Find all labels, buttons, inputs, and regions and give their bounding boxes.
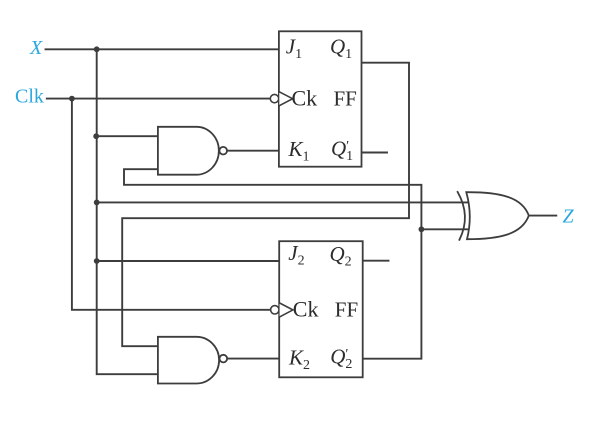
flip-flop FF1 clock bubble xyxy=(270,94,278,102)
wire Q2' feedback to NAND1 G1 lower input and XOR lower input xyxy=(124,169,421,359)
wire Q1' stub xyxy=(362,152,388,154)
flip-flop FF2 clock triangle xyxy=(280,303,293,317)
flip-flop FF1 box xyxy=(279,31,362,166)
wire NAND1 G1 output to K1 xyxy=(227,150,279,152)
flip-flop FF1 clock triangle xyxy=(279,92,292,106)
XOR gate G3 body xyxy=(466,192,529,239)
svg-text:FF: FF xyxy=(335,298,358,322)
flip-flop FF2 clock bubble xyxy=(271,306,279,314)
wire XOR top input from X bus xyxy=(97,201,469,203)
NAND gate G1 xyxy=(158,127,227,175)
wire X input to J1 xyxy=(46,48,279,50)
wire Q1 route to NAND2 G2 top input xyxy=(122,63,409,347)
node junction X bus to NAND1 xyxy=(93,133,99,139)
XOR gate G3 input arc xyxy=(458,192,465,240)
wire X vertical bus xyxy=(97,49,158,374)
svg-text:Ck: Ck xyxy=(292,86,318,111)
svg-text:FF: FF xyxy=(334,86,357,110)
wire Clk vertical to Ck2 xyxy=(72,99,271,310)
node junction on X input wire xyxy=(94,46,100,52)
wire XOR output to Z xyxy=(529,215,557,217)
flip-flop FF2 box xyxy=(279,241,363,377)
node junction X bus to J2 xyxy=(94,258,100,264)
wire Clk input to Ck1 xyxy=(47,98,270,100)
svg-text:Ck: Ck xyxy=(293,297,319,322)
wire NAND2 G2 output to K2 xyxy=(227,358,279,360)
NAND gate G2 xyxy=(158,337,227,384)
node junction on Clk input wire xyxy=(69,96,75,102)
node junction Q2' to XOR lower input xyxy=(419,226,425,232)
svg-text:X: X xyxy=(29,37,43,59)
node junction X bus to XOR xyxy=(94,200,100,206)
wire J2 input from X bus xyxy=(97,260,280,262)
wire XOR lower input xyxy=(421,228,468,230)
wire NAND1 G1 top input from X bus xyxy=(96,135,158,137)
svg-text:Z: Z xyxy=(563,206,575,228)
svg-text:Clk: Clk xyxy=(15,86,44,108)
wire Q2 stub xyxy=(363,260,389,262)
